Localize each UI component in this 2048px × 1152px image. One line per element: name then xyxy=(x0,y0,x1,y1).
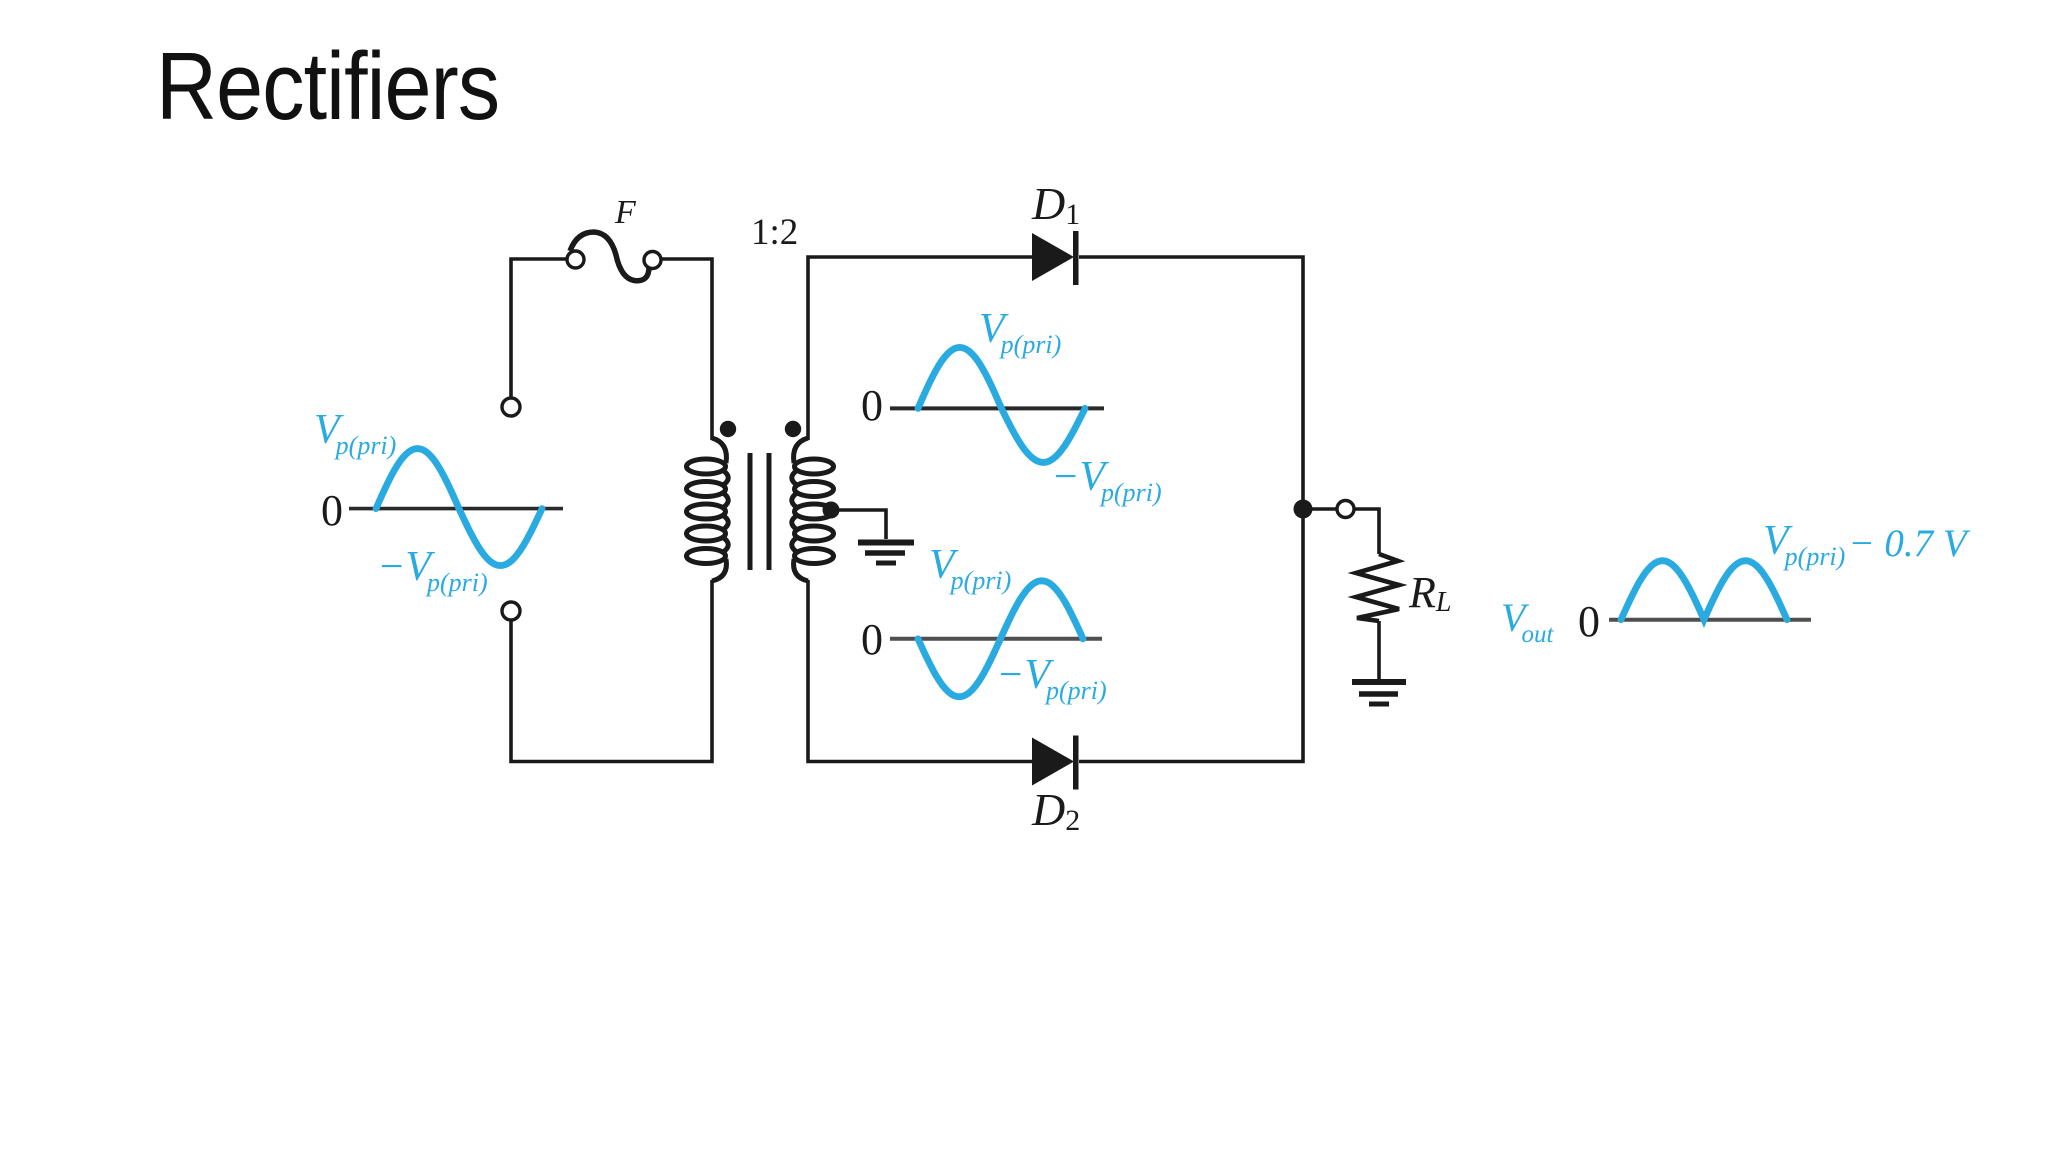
svg-text:Vp(pri): Vp(pri) xyxy=(979,306,1061,359)
svg-text:−Vp(pri): −Vp(pri) xyxy=(1051,454,1162,507)
svg-text:−Vp(pri): −Vp(pri) xyxy=(996,652,1107,705)
svg-text:RL: RL xyxy=(1408,568,1451,618)
svg-text:Vp(pri): Vp(pri) xyxy=(314,407,396,460)
svg-text:Vp(pri): Vp(pri) xyxy=(929,542,1011,595)
svg-text:0: 0 xyxy=(1578,597,1600,646)
svg-text:0: 0 xyxy=(321,486,343,535)
svg-text:−Vp(pri): −Vp(pri) xyxy=(377,544,488,597)
svg-text:D2: D2 xyxy=(1031,784,1080,837)
svg-text:1:2: 1:2 xyxy=(751,212,798,253)
svg-text:D1: D1 xyxy=(1031,178,1080,231)
svg-text:F: F xyxy=(614,194,637,231)
svg-text:0: 0 xyxy=(861,381,883,430)
svg-text:Vout: Vout xyxy=(1501,595,1554,648)
svg-text:0: 0 xyxy=(861,615,883,664)
svg-text:Vp(pri)− 0.7 V: Vp(pri)− 0.7 V xyxy=(1763,518,1971,571)
